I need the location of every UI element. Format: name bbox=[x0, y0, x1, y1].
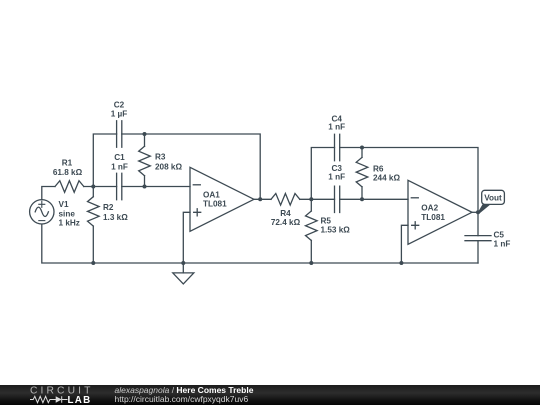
svg-text:OA1: OA1 bbox=[203, 191, 220, 200]
svg-text:1 nF: 1 nF bbox=[328, 172, 345, 181]
op-amp OA1 bbox=[190, 167, 254, 231]
label OA2 designator bbox=[421, 204, 445, 222]
label R6 value bbox=[373, 165, 400, 183]
node output stage1 junction bbox=[258, 197, 262, 201]
svg-text:1.53 kΩ: 1.53 kΩ bbox=[321, 226, 351, 235]
svg-text:sine: sine bbox=[59, 210, 76, 219]
node rail R2 junction bbox=[91, 261, 95, 265]
svg-text:C2: C2 bbox=[114, 101, 125, 110]
svg-text:TL081: TL081 bbox=[421, 213, 445, 222]
label R2 value bbox=[103, 203, 128, 222]
resistor R5 bbox=[306, 199, 318, 263]
wire C2 to feedback corner down to output node bbox=[122, 134, 260, 199]
svg-text:72.4 kΩ: 72.4 kΩ bbox=[271, 218, 301, 227]
node N1 junction bbox=[91, 185, 95, 189]
svg-text:1 nF: 1 nF bbox=[111, 163, 128, 172]
footer bar bbox=[0, 385, 540, 405]
label C1 value bbox=[111, 153, 128, 172]
svg-text:C5: C5 bbox=[494, 231, 505, 240]
capacitor C5 bbox=[465, 236, 491, 241]
svg-text:208 kΩ: 208 kΩ bbox=[155, 162, 182, 171]
svg-text:244 kΩ: 244 kΩ bbox=[373, 174, 400, 183]
wire OA1 output to R4 bbox=[254, 198, 271, 200]
resistor R6 bbox=[356, 148, 368, 200]
wire OA1 plus input stub to ground rail bbox=[183, 212, 190, 263]
wire C1 to op-amp OA1 minus input bbox=[122, 186, 190, 188]
svg-text:R3: R3 bbox=[155, 152, 166, 161]
label V1 value bbox=[59, 200, 80, 228]
svg-text:1 nF: 1 nF bbox=[328, 122, 345, 131]
label C2 value bbox=[111, 101, 128, 119]
svg-text:R5: R5 bbox=[321, 217, 332, 226]
svg-text:R2: R2 bbox=[103, 203, 114, 212]
op-amp OA2 bbox=[408, 180, 472, 244]
node R3 bottom junction bbox=[143, 185, 147, 189]
svg-text:61.8 kΩ: 61.8 kΩ bbox=[53, 168, 83, 177]
capacitor C4 bbox=[335, 134, 340, 160]
wire N1 up to feedback (C2) bbox=[93, 134, 116, 187]
resistor R1 bbox=[55, 181, 84, 193]
capacitor C3 bbox=[335, 186, 340, 212]
svg-text:1 µF: 1 µF bbox=[111, 110, 128, 119]
label R1 value bbox=[53, 158, 83, 177]
svg-text:LAB: LAB bbox=[68, 395, 92, 405]
node R6 bottom junction bbox=[360, 197, 364, 201]
label R4 value bbox=[271, 209, 301, 227]
svg-text:1 kHz: 1 kHz bbox=[59, 219, 80, 228]
label C4 value bbox=[328, 114, 345, 131]
svg-text:Vout: Vout bbox=[484, 193, 502, 202]
wire OA2 output to node bbox=[472, 211, 478, 213]
svg-text:R1: R1 bbox=[62, 158, 73, 167]
node rail R5 junction bbox=[309, 261, 313, 265]
wire R4 to node N2 and C3 bbox=[300, 198, 335, 200]
wire bottom ground rail bbox=[42, 224, 478, 263]
resistor R2 bbox=[88, 187, 100, 264]
wire OA2 plus input stub to ground rail bbox=[401, 225, 408, 263]
label R5 value bbox=[321, 217, 351, 235]
voltage source V1 bbox=[30, 200, 54, 224]
svg-text:OA2: OA2 bbox=[421, 204, 438, 213]
label C3 value bbox=[328, 164, 345, 181]
svg-text:V1: V1 bbox=[59, 200, 69, 209]
label OA1 designator bbox=[203, 191, 227, 209]
node R3 top junction bbox=[143, 132, 147, 136]
label R3 value bbox=[155, 152, 182, 171]
capacitor C1 bbox=[117, 173, 122, 199]
svg-text:C1: C1 bbox=[114, 153, 125, 162]
resistor R4 bbox=[271, 194, 300, 206]
node rail OA2 plus junction bbox=[399, 261, 403, 265]
wire R1 to node N1 and C1 bbox=[84, 186, 117, 188]
svg-text:R6: R6 bbox=[373, 165, 384, 174]
node Vout output junction bbox=[476, 210, 480, 214]
node R6 top junction bbox=[360, 146, 364, 150]
node rail ground junction bbox=[181, 261, 185, 265]
wire V1 top to R1 bbox=[42, 187, 55, 200]
resistor R3 bbox=[139, 134, 151, 187]
label C5 value bbox=[494, 231, 511, 249]
wire C4 right along feedback top and down right side bbox=[340, 148, 478, 236]
capacitor C2 bbox=[117, 121, 122, 147]
node N2 junction bbox=[309, 197, 313, 201]
CircuitLab logo bbox=[28, 385, 128, 405]
svg-text:TL081: TL081 bbox=[203, 200, 227, 209]
wire C5 bottom to rail bbox=[477, 241, 479, 263]
wire N2 up to feedback (C4) bbox=[311, 148, 334, 200]
ground bbox=[173, 263, 194, 284]
wire C3 to op-amp OA2 minus input bbox=[340, 198, 408, 200]
svg-text:R4: R4 bbox=[280, 209, 291, 218]
svg-text:1.3 kΩ: 1.3 kΩ bbox=[103, 213, 128, 222]
footer text bbox=[115, 385, 254, 404]
svg-text:1 nF: 1 nF bbox=[494, 239, 511, 248]
Vout flag bbox=[477, 190, 504, 213]
